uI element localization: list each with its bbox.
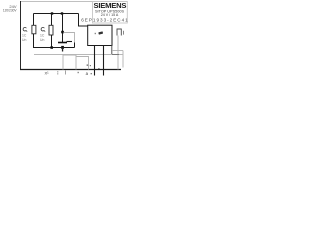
wire rail to module [79,14,89,27]
dot below rail [78,72,79,73]
separator darker segment [112,54,119,56]
svg-text:1C: 1C [40,34,45,38]
minus polarity dash [67,41,73,43]
battery symbol B1 [117,29,124,36]
wire below F2 [51,35,53,48]
device outline B [76,57,89,70]
wire drop to fuse F2 [51,14,53,26]
svg-text:6EP1933-2EC41: 6EP1933-2EC41 [81,17,128,22]
capacitor C1 lower plate [61,46,64,49]
dot after a [91,73,92,74]
battery lead wire left [117,36,119,70]
capacitor C1 plate [58,42,67,44]
svg-text:n: n [98,67,100,71]
module right edge drop wire [111,45,113,54]
titleblock frame [93,2,128,24]
module leg wire 1 [94,45,96,75]
fuse F2 [49,25,53,35]
wire bus drop C1 [62,14,64,43]
gray separator line [34,54,123,56]
label under P1 [22,34,27,42]
enclosure left edge [20,1,22,70]
gray branch wire [64,33,75,43]
lamp symbol P2 [41,27,44,31]
wire drop to fuse F1 [33,14,35,26]
fuse F1 [32,25,36,34]
colon mark below rail [57,71,58,74]
wire L+ top rail [34,13,79,15]
terminal marks above rail [87,64,91,66]
svg-text:Un: Un [40,38,44,42]
svg-text:120/230V: 120/230V [3,9,18,13]
svg-text:Un: Un [22,38,26,42]
minus rail wire [34,47,75,49]
svg-text:1C: 1C [22,34,27,38]
node junction on rail [51,12,53,14]
battery box top [112,50,123,52]
tick below rail [65,71,67,75]
wire stub vertical [74,43,76,48]
label under P2 [40,34,45,42]
node junction on rail [61,12,63,14]
lamp symbol P1 [23,27,26,31]
wire below F1 [34,34,53,48]
mounting rail / enclosure bottom [20,69,121,71]
enclosure top edge [20,1,127,3]
node junction minus rail [50,46,53,49]
input label DC 24 V [3,4,18,13]
device outline A [63,55,76,70]
node junction on bus [61,31,64,34]
battery lead wire right [122,51,124,68]
icon inside module [95,31,104,34]
module U1 box [88,25,112,45]
module leg wire 2 [103,45,105,75]
